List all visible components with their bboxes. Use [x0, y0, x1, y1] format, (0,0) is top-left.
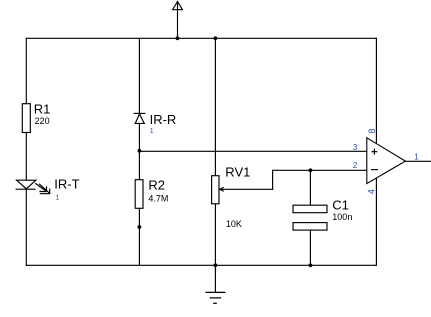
resistor R2 — [135, 180, 143, 209]
capacitor C1 — [293, 205, 327, 230]
svg-text:R2: R2 — [148, 178, 165, 193]
svg-text:R1: R1 — [34, 102, 51, 117]
wire middle vertical IR-R/R2 — [138, 38, 140, 265]
svg-text:IR-R: IR-R — [150, 112, 177, 127]
junction C1 top/pin2 net — [309, 168, 313, 172]
wire wiper horizontal — [220, 188, 273, 190]
svg-text:2: 2 — [353, 161, 358, 170]
junction C1 bottom/bottom rail — [309, 263, 313, 267]
svg-text:IR-T: IR-T — [54, 177, 79, 192]
junction power/top rail — [176, 36, 180, 40]
power symbol — [173, 1, 183, 9]
potentiometer RV1 — [212, 176, 219, 204]
junction RV1 top/top rail — [214, 36, 218, 40]
svg-text:4.7M: 4.7M — [148, 194, 168, 204]
wire left vertical — [25, 38, 27, 265]
LED IR-T emission arrows — [36, 184, 50, 194]
wire bottom rail — [26, 264, 376, 266]
LED IR-T — [16, 180, 36, 189]
op-amp minus sign — [371, 169, 378, 171]
junction on R2 bottom wire — [138, 225, 142, 229]
svg-text:RV1: RV1 — [225, 164, 250, 179]
resistor R1 — [22, 104, 30, 133]
op-amp U1 — [367, 138, 406, 184]
wire C1 top lead — [309, 170, 311, 205]
op-amp plus sign — [371, 149, 377, 155]
wire C1 bottom lead — [309, 230, 311, 265]
junction ground/bottom rail — [214, 263, 218, 267]
svg-text:4: 4 — [366, 189, 376, 194]
svg-text:8: 8 — [367, 129, 377, 134]
svg-text:3: 3 — [353, 143, 358, 152]
wire right vertical (pin 8 to rail, pin 4 to rail) — [375, 38, 377, 265]
svg-text:1: 1 — [414, 153, 419, 162]
svg-text:100n: 100n — [332, 212, 352, 222]
svg-text:1: 1 — [150, 128, 154, 135]
wire pin 3 net — [139, 150, 366, 152]
wire pin 2 net — [273, 169, 367, 171]
wire top rail — [26, 37, 376, 39]
svg-text:1: 1 — [55, 195, 59, 202]
wire ground stub — [214, 265, 216, 292]
svg-text:C1: C1 — [332, 198, 349, 213]
wire RV1 vertical — [214, 38, 216, 265]
svg-text:10K: 10K — [226, 219, 242, 229]
potentiometer RV1 wiper arrowhead — [220, 187, 224, 191]
node A junction IR-R/R2/pin3 — [138, 149, 142, 153]
wire power stub — [177, 2, 179, 39]
ground — [205, 292, 225, 303]
svg-text:220: 220 — [35, 116, 50, 126]
diode IR-R — [134, 113, 146, 123]
wire op-amp output — [405, 160, 431, 162]
wire wiper riser — [272, 170, 274, 189]
